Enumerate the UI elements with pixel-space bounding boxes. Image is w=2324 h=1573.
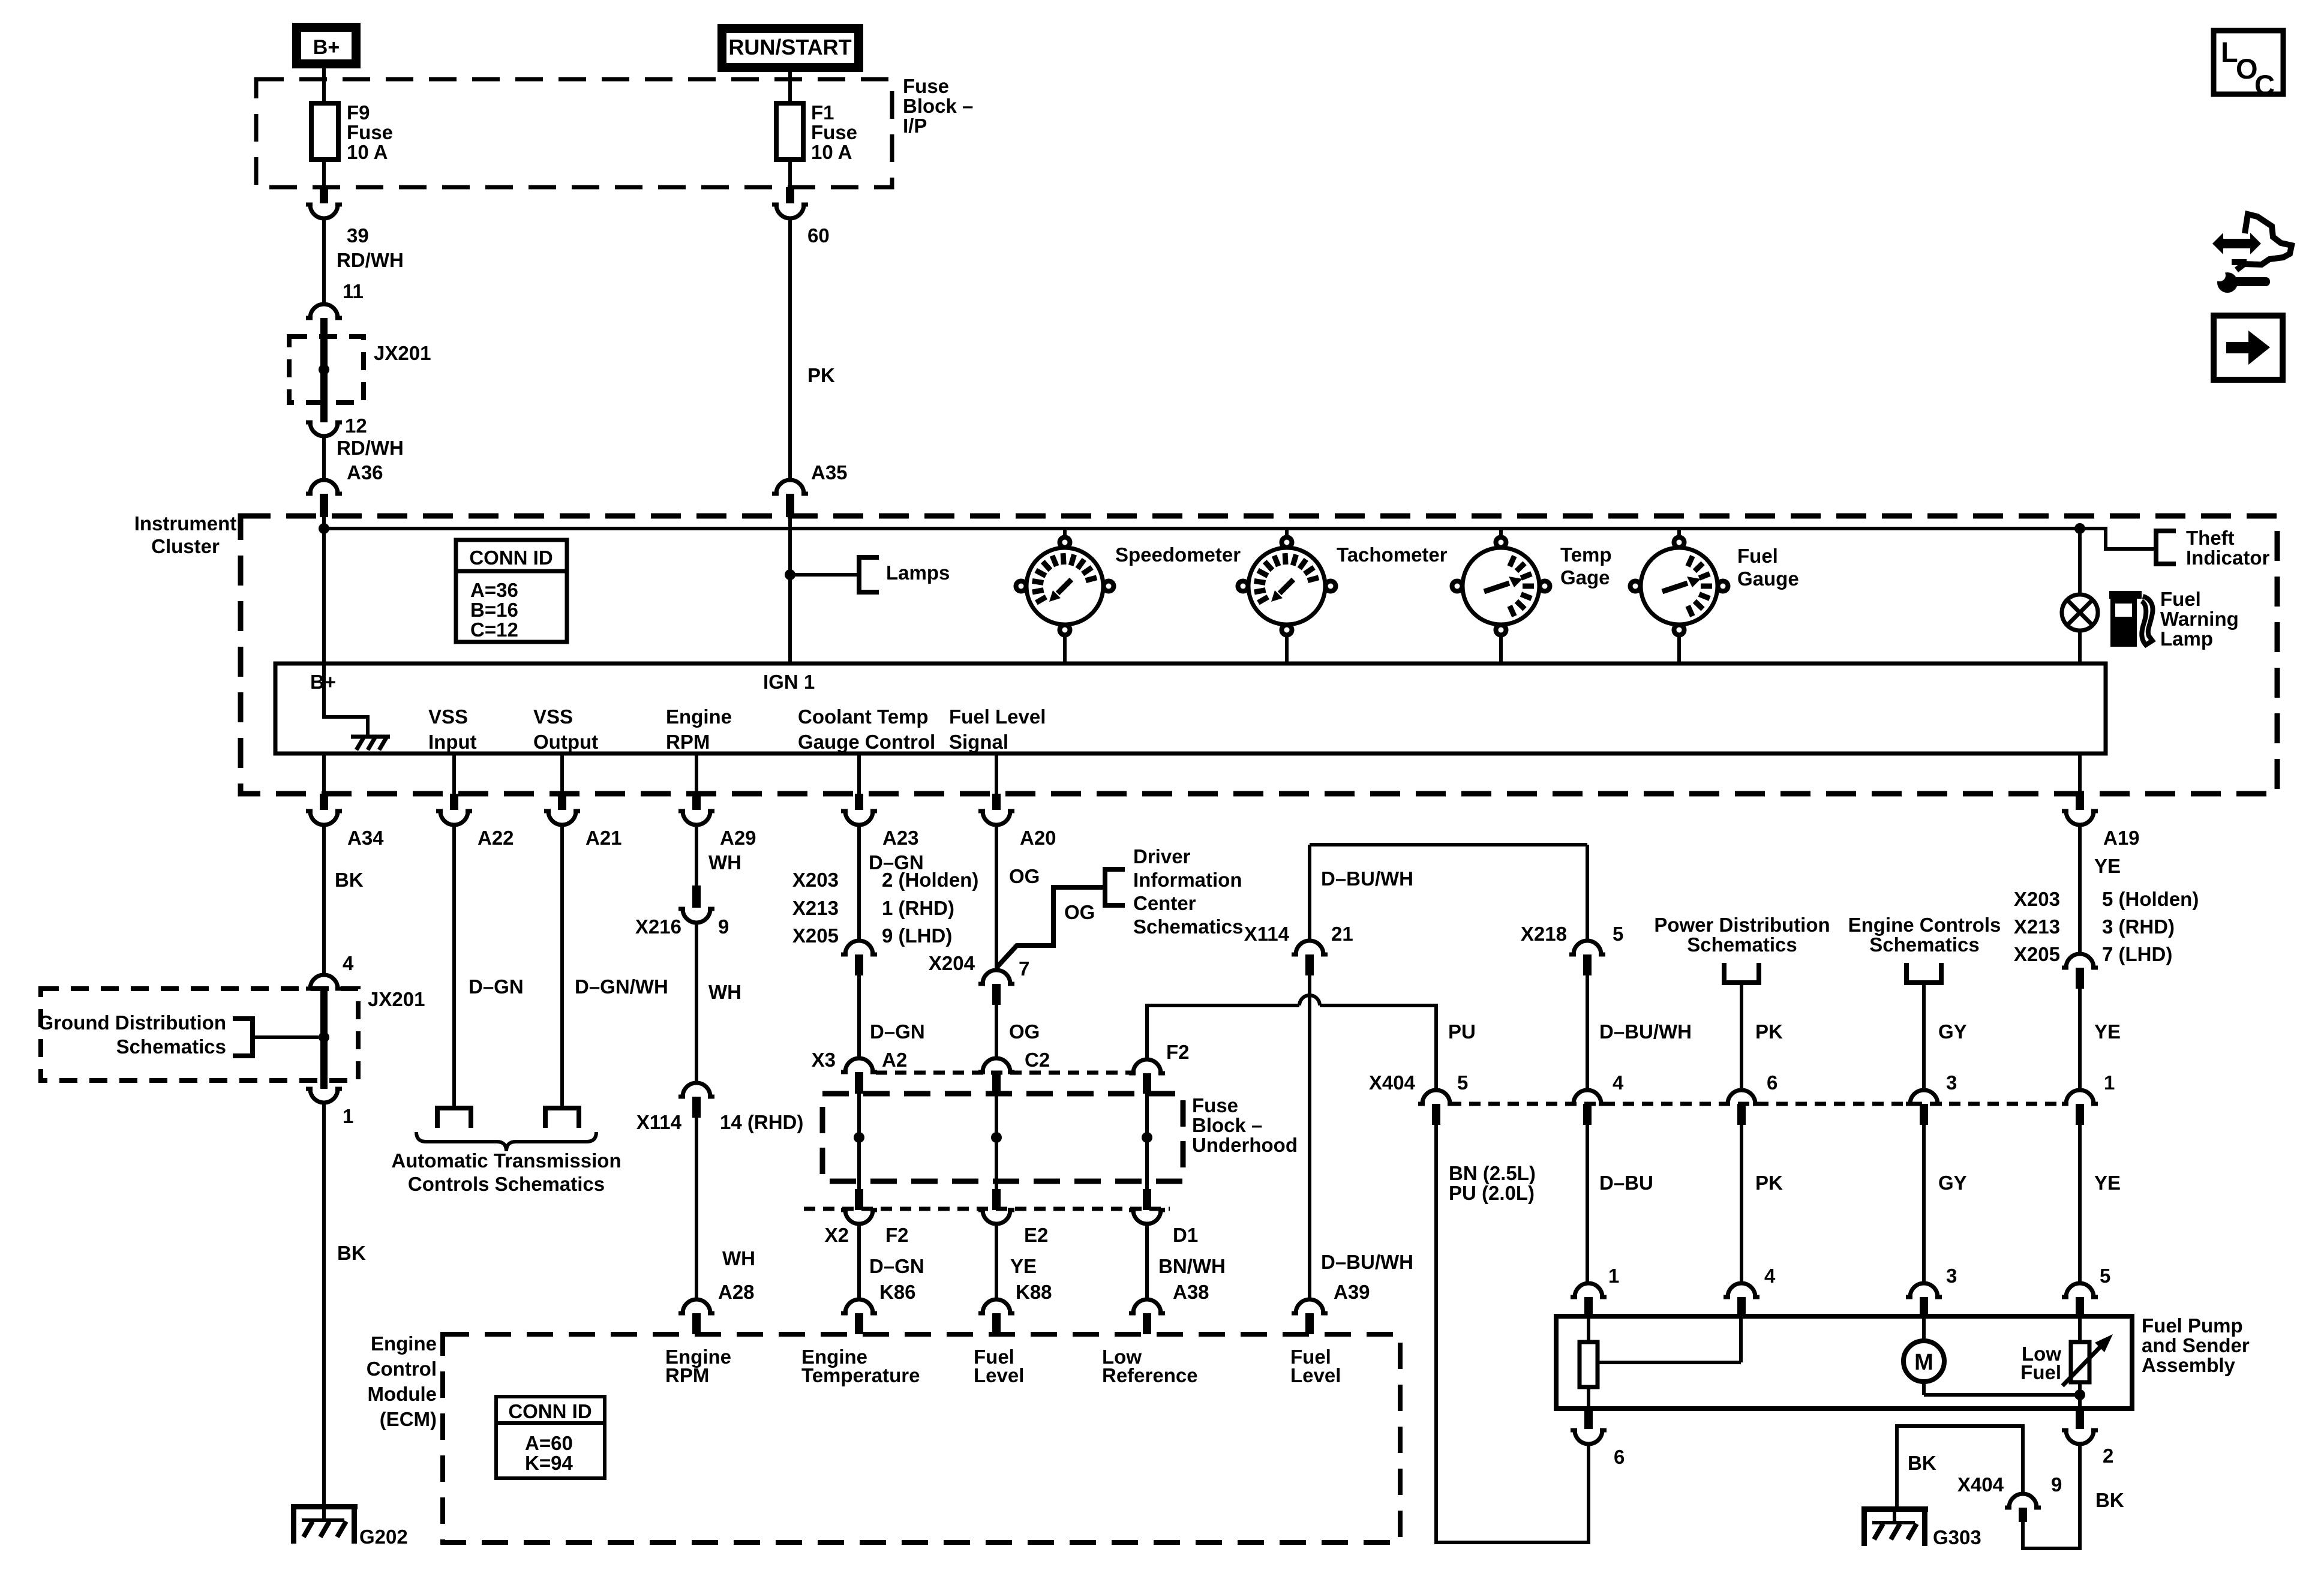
svg-text:Module: Module	[368, 1383, 437, 1405]
svg-text:PK: PK	[1755, 1020, 1783, 1043]
wire through fuse block	[857, 1094, 861, 1189]
connector X114 pin 21	[1244, 923, 1353, 975]
wire GY X404-3 to pump 3	[1924, 1125, 1967, 1283]
svg-text:K86: K86	[879, 1281, 916, 1303]
svg-text:IGN 1: IGN 1	[763, 671, 815, 693]
svg-text:PK: PK	[807, 364, 835, 386]
wire PK X404-6 to pump 4	[1742, 1125, 1783, 1283]
svg-text:Lamp: Lamp	[2160, 628, 2213, 650]
svg-text:CONN ID: CONN ID	[469, 547, 553, 569]
svg-text:Output: Output	[533, 731, 598, 753]
fuse F1	[776, 101, 857, 163]
connector X404 pin 6	[1724, 1071, 1777, 1125]
lamps bracket	[859, 557, 950, 592]
connector A35	[772, 461, 848, 517]
connector A19	[2062, 794, 2140, 849]
connector pump pin 6	[1571, 1409, 1625, 1468]
fuel level sender resistor	[1580, 1316, 1741, 1409]
connector A22	[436, 794, 514, 849]
svg-text:YE: YE	[2094, 1172, 2121, 1194]
svg-text:C=12: C=12	[470, 619, 518, 641]
node fuse block junction	[1142, 1132, 1152, 1143]
svg-text:Coolant Temp: Coolant Temp	[798, 706, 929, 728]
label Fuse Block - I/P	[903, 75, 973, 137]
svg-text:A21: A21	[585, 827, 622, 849]
svg-text:A38: A38	[1173, 1281, 1209, 1303]
svg-text:3 (RHD): 3 (RHD)	[2102, 915, 2175, 938]
svg-text:G202: G202	[359, 1526, 408, 1548]
svg-text:OG: OG	[1009, 1020, 1040, 1043]
svg-text:X404: X404	[1369, 1071, 1416, 1094]
theft indicator bracket	[2156, 527, 2270, 569]
svg-text:PU (2.0L): PU (2.0L)	[1449, 1182, 1535, 1204]
svg-text:X3: X3	[812, 1049, 836, 1071]
label Fuel Warning Lamp	[2160, 588, 2239, 650]
svg-text:I/P: I/P	[903, 115, 927, 137]
svg-text:Reference: Reference	[1102, 1364, 1198, 1386]
wire RD/WH 39-11	[324, 218, 404, 304]
wire YE A19 to X203	[2080, 825, 2121, 954]
svg-text:D–BU/WH: D–BU/WH	[1321, 867, 1413, 890]
terminal A22	[437, 1108, 471, 1128]
icon vehicle data arrow	[2212, 214, 2292, 270]
connector A29	[678, 794, 756, 849]
svg-text:JX201: JX201	[374, 342, 431, 364]
svg-text:10 A: 10 A	[347, 141, 388, 163]
gauge tachometer	[1238, 530, 1448, 664]
driver information center bracket	[1105, 845, 1243, 938]
connector X114 pin 14	[636, 1083, 804, 1133]
ECM CONN ID table	[496, 1397, 605, 1478]
svg-text:2: 2	[2103, 1445, 2113, 1467]
wire D-BU/WH 21 to A39	[1310, 975, 1413, 1299]
svg-text:3: 3	[1946, 1071, 1957, 1094]
wire OG branch to DIC	[996, 887, 1105, 968]
terminal A21	[545, 1108, 579, 1128]
wire theft node down to box	[2078, 529, 2082, 664]
connector pin D1	[1129, 1189, 1198, 1246]
ground distribution bracket	[38, 1011, 319, 1058]
svg-text:9: 9	[718, 915, 729, 938]
fuel warning lamp	[2062, 595, 2098, 631]
svg-text:Theft: Theft	[2186, 527, 2235, 549]
svg-text:A=36: A=36	[470, 579, 518, 601]
wire A20 box to cluster edge	[995, 754, 998, 794]
svg-text:X218: X218	[1521, 923, 1567, 945]
svg-text:WH: WH	[708, 851, 741, 873]
wire PK 60-A35	[790, 218, 835, 480]
wire BN/PU X404-5 to fuel pump 6	[1436, 1125, 1589, 1542]
svg-text:BK: BK	[337, 1242, 366, 1264]
brace automatic transmission	[416, 1132, 596, 1151]
connector pin C2	[978, 1049, 1050, 1094]
svg-text:Temperature: Temperature	[801, 1364, 920, 1386]
wire RD/WH 12-A36	[324, 436, 404, 480]
connector X216 pin 9	[635, 885, 729, 938]
svg-text:Schematics: Schematics	[1869, 933, 1979, 956]
svg-text:Warning: Warning	[2160, 608, 2239, 630]
svg-text:VSS: VSS	[533, 706, 573, 728]
fuse block I/P box	[256, 79, 892, 187]
label Engine RPM pin	[666, 706, 732, 753]
label ECM Fuel Level 1	[974, 1346, 1024, 1386]
svg-text:X404: X404	[1957, 1473, 2004, 1496]
svg-text:Tachometer: Tachometer	[1337, 544, 1448, 566]
power symbol B+	[297, 28, 356, 64]
connector pump pin 5	[2062, 1265, 2110, 1316]
svg-text:YE: YE	[1010, 1255, 1037, 1277]
svg-text:VSS: VSS	[428, 706, 468, 728]
svg-text:Automatic Transmission: Automatic Transmission	[391, 1149, 621, 1172]
label Fuel Pump and Sender Assembly	[2142, 1314, 2250, 1376]
svg-text:YE: YE	[2094, 855, 2121, 877]
svg-text:D–BU/WH: D–BU/WH	[1599, 1020, 1692, 1043]
svg-text:Ground Distribution: Ground Distribution	[38, 1011, 226, 1034]
wire D-GN X203 to A2	[859, 975, 925, 1058]
svg-text:11: 11	[343, 280, 364, 302]
svg-text:Gauge Control: Gauge Control	[798, 731, 935, 753]
label VSS Input	[428, 706, 477, 753]
svg-text:D–GN: D–GN	[870, 1020, 925, 1043]
cluster internal box IGN1	[275, 664, 2106, 754]
svg-text:X213: X213	[792, 897, 839, 919]
svg-text:Engine: Engine	[666, 706, 732, 728]
svg-text:PU: PU	[1448, 1020, 1476, 1043]
svg-text:Controls Schematics: Controls Schematics	[408, 1173, 605, 1195]
svg-text:K=94: K=94	[525, 1452, 573, 1474]
svg-text:14 (RHD): 14 (RHD)	[720, 1111, 803, 1133]
svg-text:RD/WH: RD/WH	[337, 437, 404, 459]
svg-text:Block –: Block –	[903, 95, 973, 117]
connector X404 pin 4	[1569, 1071, 1624, 1125]
svg-text:GY: GY	[1938, 1172, 1967, 1194]
svg-text:A=60: A=60	[525, 1432, 573, 1454]
svg-text:F2: F2	[1166, 1041, 1190, 1063]
svg-text:5: 5	[1457, 1071, 1468, 1094]
wire BK X404-9 to G303	[1897, 1426, 2023, 1506]
power distribution bracket	[1654, 914, 1830, 1090]
wire D-BU/WH top run	[1310, 845, 1587, 941]
svg-text:Gage: Gage	[1560, 566, 1610, 589]
svg-text:Schematics: Schematics	[1133, 915, 1243, 938]
node B+ bus junction	[319, 523, 329, 534]
svg-text:6: 6	[1614, 1446, 1625, 1468]
svg-text:5 (Holden): 5 (Holden)	[2102, 888, 2199, 910]
svg-text:Control: Control	[367, 1358, 437, 1380]
svg-text:WH: WH	[722, 1247, 755, 1269]
svg-text:1: 1	[343, 1105, 353, 1127]
wire A22 box to cluster edge	[452, 754, 456, 794]
connector A34	[306, 794, 384, 849]
wire D-GN/WH A21	[562, 825, 668, 1108]
gauge temp gage	[1452, 530, 1612, 664]
svg-text:12: 12	[345, 415, 367, 437]
fuel pump icon	[2109, 591, 2152, 647]
label Fuel Level Signal	[949, 706, 1046, 753]
svg-text:BN (2.5L): BN (2.5L)	[1449, 1162, 1536, 1184]
instrument cluster box	[241, 516, 2277, 794]
svg-text:X205: X205	[2014, 943, 2060, 965]
label Engine Control Module ECM	[367, 1332, 437, 1430]
svg-text:G303: G303	[1933, 1526, 1981, 1548]
svg-text:A39: A39	[1334, 1281, 1370, 1303]
svg-text:(ECM): (ECM)	[380, 1408, 437, 1430]
svg-text:A34: A34	[347, 827, 384, 849]
wire F1 to connector 60	[788, 160, 792, 187]
connector X404 pin 9	[1957, 1473, 2062, 1522]
svg-text:Information: Information	[1133, 869, 1242, 891]
svg-text:Cluster: Cluster	[151, 535, 220, 557]
wire D-BU X404-4 to pump 1	[1587, 1125, 1653, 1283]
wire RUN/START to fuse F1	[788, 68, 792, 103]
svg-text:5: 5	[1613, 923, 1623, 945]
connector pump pin 4	[1724, 1265, 1776, 1316]
svg-text:BK: BK	[1908, 1452, 1936, 1474]
wire lamps branch	[790, 573, 859, 577]
svg-text:Assembly: Assembly	[2142, 1354, 2236, 1376]
svg-text:E2: E2	[1024, 1224, 1048, 1246]
svg-text:9 (LHD): 9 (LHD)	[882, 924, 952, 947]
svg-text:D–GN/WH: D–GN/WH	[575, 975, 668, 998]
wire A21 box to cluster edge	[560, 754, 564, 794]
icon arrow box	[2214, 316, 2283, 380]
svg-text:D–BU: D–BU	[1599, 1172, 1653, 1194]
svg-text:X114: X114	[636, 1111, 682, 1133]
svg-text:5: 5	[2100, 1265, 2110, 1287]
wire A19 box to cluster edge	[2078, 754, 2082, 794]
svg-text:Schematics: Schematics	[116, 1035, 226, 1058]
svg-text:D1: D1	[1173, 1224, 1198, 1246]
ground G202	[291, 1504, 408, 1548]
svg-text:Fuel Level: Fuel Level	[949, 706, 1046, 728]
svg-text:Instrument: Instrument	[134, 512, 237, 535]
wire through fuse block	[1145, 1094, 1149, 1189]
svg-text:A20: A20	[1020, 827, 1056, 849]
node fuse block junction	[854, 1132, 864, 1143]
ground G303	[1861, 1506, 1981, 1548]
svg-text:K88: K88	[1016, 1281, 1052, 1303]
svg-text:C2: C2	[1025, 1049, 1050, 1071]
svg-text:Input: Input	[428, 731, 477, 753]
svg-text:OG: OG	[1009, 865, 1040, 887]
connector pin F2 top	[1129, 1041, 1190, 1094]
svg-text:M: M	[1914, 1350, 1933, 1375]
connector X204 pin 7	[929, 952, 1029, 1005]
svg-text:A2: A2	[882, 1049, 907, 1071]
wire B+ to fuse F9	[322, 68, 326, 103]
svg-text:A23: A23	[882, 827, 919, 849]
svg-text:F1: F1	[811, 101, 834, 124]
svg-text:RPM: RPM	[666, 731, 710, 753]
svg-text:OG: OG	[1064, 901, 1095, 923]
svg-text:BN/WH: BN/WH	[1158, 1255, 1226, 1277]
wire D-GN A23 to X203	[859, 825, 924, 941]
wire A35 to IGN1 box	[788, 516, 792, 664]
svg-text:X204: X204	[929, 952, 975, 974]
connector pump pin 1	[1571, 1265, 1619, 1316]
svg-text:Block –: Block –	[1192, 1114, 1262, 1136]
svg-text:D–GN: D–GN	[869, 1255, 924, 1277]
wire A36 into cluster	[322, 516, 326, 530]
svg-text:9: 9	[2051, 1473, 2062, 1496]
wire WH A29 to X216	[696, 825, 741, 885]
connector X404 pin 1	[2062, 1071, 2115, 1125]
svg-text:Temp: Temp	[1560, 544, 1612, 566]
svg-text:A36: A36	[347, 461, 383, 484]
svg-text:Driver: Driver	[1133, 845, 1191, 867]
svg-text:Signal: Signal	[949, 731, 1008, 753]
svg-text:21: 21	[1331, 923, 1353, 945]
svg-text:7: 7	[1019, 957, 1029, 980]
svg-text:JX201: JX201	[368, 988, 425, 1010]
svg-text:X205: X205	[792, 924, 839, 947]
engine control module box	[443, 1334, 1400, 1542]
label Automatic Transmission Controls Schematics	[391, 1149, 621, 1195]
wire YE X203 to X404-1	[2080, 989, 2121, 1090]
X404 connector row dotted line	[1450, 1102, 2067, 1106]
icon LOC box	[2214, 31, 2283, 101]
gauge speedometer	[1016, 530, 1241, 664]
node theft junction	[2074, 523, 2085, 534]
cluster CONN ID table	[456, 540, 567, 642]
svg-text:10 A: 10 A	[811, 141, 852, 163]
wire WH X216 to X114	[696, 923, 741, 1083]
wire D-GN A22	[454, 825, 524, 1108]
connector pump pin 2	[2062, 1409, 2113, 1467]
svg-text:C: C	[2254, 69, 2275, 101]
connector A38	[1129, 1281, 1209, 1334]
svg-text:Level: Level	[974, 1364, 1024, 1386]
svg-text:A22: A22	[478, 827, 514, 849]
connector A36	[306, 461, 383, 517]
wire B+ bus down to box	[322, 529, 326, 664]
wire BN/WH D1 to A38	[1147, 1224, 1226, 1299]
svg-text:4: 4	[1764, 1265, 1776, 1287]
svg-text:D–GN: D–GN	[469, 975, 524, 998]
label ECM Low Reference	[1102, 1346, 1198, 1386]
label ECM Engine Temperature	[801, 1346, 920, 1386]
svg-text:A35: A35	[811, 461, 848, 484]
svg-text:Fuse: Fuse	[811, 121, 857, 143]
svg-text:Level: Level	[1290, 1364, 1341, 1386]
svg-text:Speedometer: Speedometer	[1115, 544, 1241, 566]
svg-text:Fuse: Fuse	[1192, 1094, 1238, 1116]
connector A20	[978, 794, 1056, 849]
svg-text:X114: X114	[1244, 923, 1290, 945]
connector pin 60	[772, 187, 830, 247]
wire OG X204 to C2	[996, 1005, 1040, 1058]
svg-text:RPM: RPM	[665, 1364, 709, 1386]
svg-text:1: 1	[2104, 1071, 2115, 1094]
low fuel sensor	[2020, 1316, 2113, 1409]
svg-text:B+: B+	[313, 36, 340, 59]
svg-text:BK: BK	[335, 869, 364, 891]
svg-text:1 (RHD): 1 (RHD)	[882, 897, 954, 919]
junction block JX201 lower	[41, 975, 425, 1127]
connector pump pin 3	[1906, 1265, 1957, 1316]
connector X404 pin 3	[1906, 1071, 1957, 1125]
node lamps junction	[785, 569, 795, 580]
label Coolant Temp Gauge Control	[798, 706, 935, 753]
wire BK A34 to JX201	[324, 825, 364, 975]
svg-text:X216: X216	[635, 915, 681, 938]
svg-text:WH: WH	[708, 981, 741, 1003]
svg-text:RD/WH: RD/WH	[337, 249, 404, 271]
svg-text:D–BU/WH: D–BU/WH	[1321, 1251, 1413, 1273]
svg-text:GY: GY	[1938, 1020, 1967, 1043]
wire fuse block F2 feed	[1147, 995, 1436, 1090]
svg-text:RUN/START: RUN/START	[728, 35, 851, 59]
label Instrument Cluster	[134, 512, 237, 557]
wire B+ bus	[324, 527, 2080, 530]
svg-text:X213: X213	[2014, 915, 2060, 938]
svg-text:4: 4	[1613, 1071, 1624, 1094]
wire WH X114 to A28	[696, 1118, 755, 1299]
connector A23	[841, 794, 919, 849]
wire F9 to connector 39	[322, 160, 326, 187]
node fuse block junction	[991, 1132, 1002, 1143]
svg-text:Engine: Engine	[371, 1332, 437, 1355]
svg-text:4: 4	[343, 952, 354, 974]
fuel pump motor M	[1903, 1316, 2080, 1395]
svg-text:and Sender: and Sender	[2142, 1334, 2250, 1356]
svg-text:3: 3	[1946, 1265, 1957, 1287]
svg-text:A19: A19	[2103, 827, 2140, 849]
svg-text:B=16: B=16	[470, 599, 518, 621]
svg-text:Fuel: Fuel	[2160, 588, 2201, 610]
gauge fuel gauge	[1631, 530, 1799, 664]
wire to theft indicator	[2080, 529, 2156, 549]
wire through fuse block	[995, 1094, 998, 1189]
svg-text:BK: BK	[2095, 1489, 2124, 1511]
label VSS Output	[533, 706, 598, 753]
svg-text:6: 6	[1767, 1071, 1777, 1094]
svg-text:X203: X203	[792, 869, 839, 891]
cluster internal ground	[324, 664, 390, 750]
connector X203/X213/X205 left	[792, 869, 978, 975]
svg-text:Gauge: Gauge	[1737, 568, 1799, 590]
connector A21	[544, 794, 622, 849]
connector A28	[678, 1281, 755, 1334]
svg-text:7 (LHD): 7 (LHD)	[2102, 943, 2172, 965]
wire A23 box to cluster edge	[857, 754, 861, 794]
svg-text:1: 1	[1608, 1265, 1619, 1287]
svg-text:PK: PK	[1755, 1172, 1783, 1194]
svg-text:Lamps: Lamps	[886, 562, 950, 584]
label ECM Fuel Level 2	[1290, 1346, 1341, 1386]
connector pin E2	[978, 1189, 1048, 1246]
svg-text:X203: X203	[2014, 888, 2060, 910]
label ECM Engine RPM	[665, 1346, 731, 1386]
svg-text:F2: F2	[885, 1224, 909, 1246]
wire D-BU/WH X218 to X404-4	[1587, 975, 1692, 1090]
svg-text:2 (Holden): 2 (Holden)	[882, 869, 978, 891]
wire D-GN X2 to K86	[859, 1224, 924, 1299]
connector K88	[978, 1281, 1052, 1334]
svg-text:Fuse: Fuse	[903, 75, 949, 97]
svg-text:Power Distribution: Power Distribution	[1654, 914, 1830, 936]
svg-text:Engine Controls: Engine Controls	[1848, 914, 2001, 936]
connector X3 pin A2	[812, 1049, 908, 1094]
svg-text:Fuse: Fuse	[347, 121, 393, 143]
label BN PU engine variants	[1449, 1162, 1536, 1204]
svg-text:Fuel: Fuel	[1737, 545, 1778, 567]
svg-text:A29: A29	[720, 827, 756, 849]
connector pin 39	[306, 187, 369, 247]
connector A39	[1292, 1281, 1370, 1334]
svg-text:F9: F9	[347, 101, 370, 124]
svg-text:Schematics: Schematics	[1687, 933, 1797, 956]
